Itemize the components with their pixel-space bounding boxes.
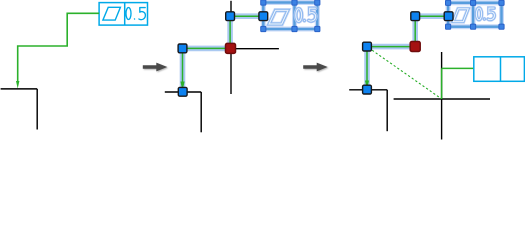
- part corner lines (black): [349, 90, 387, 131]
- frame corner mini grips: [446, 0, 505, 29]
- highlighted tolerance value 0.5: [476, 8, 494, 20]
- leader line (green): [18, 13, 99, 82]
- frame corner mini grips: [261, 0, 320, 32]
- leader arrowhead: [16, 81, 19, 89]
- flatness symbol (parallelogram): [103, 7, 121, 20]
- highlighted feature control frame F3: [448, 3, 501, 27]
- selected leader (green): [183, 16, 264, 83]
- tolerance value 0.5: [126, 8, 145, 20]
- grip: top vertex: [411, 12, 420, 21]
- hot grip (red): [226, 43, 236, 53]
- highlighted feature control frame F2: [263, 3, 317, 30]
- grip: top vertex: [226, 12, 235, 21]
- highlighted tolerance value 0.5: [296, 8, 316, 21]
- selected leader halo: [367, 16, 449, 86]
- grip: arrow end: [178, 87, 187, 96]
- new leader preview (green): [442, 68, 474, 99]
- grip: left vertex: [363, 42, 372, 51]
- rubber-band dashed line to cursor: [369, 48, 442, 99]
- hot grip (red): [410, 42, 420, 52]
- grip: left vertex: [178, 44, 187, 53]
- part corner lines (black): [165, 92, 201, 132]
- grip: leader attach point: [444, 12, 453, 21]
- leader arrowhead: [180, 82, 184, 92]
- part corner lines (black): [1, 89, 38, 130]
- grip: arrow end: [363, 85, 372, 94]
- new empty feature control frame (cyan): [474, 57, 525, 82]
- selected leader halo: [183, 16, 264, 88]
- selected leader (green): [367, 16, 449, 81]
- highlighted flatness symbol: [453, 9, 468, 22]
- crosshair cursor (black): [394, 52, 490, 140]
- highlighted flatness symbol: [269, 10, 288, 24]
- crosshair cursor (black): [184, 1, 279, 94]
- feature control frame F1 (cyan): [99, 3, 147, 26]
- grip: leader attach point: [259, 12, 268, 21]
- leader arrowhead: [365, 81, 369, 90]
